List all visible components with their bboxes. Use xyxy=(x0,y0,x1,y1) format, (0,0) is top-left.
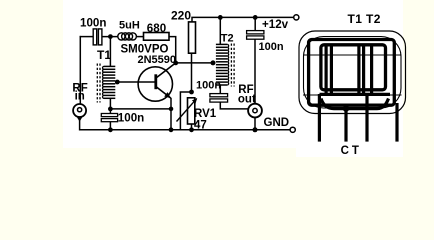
node RV1 ground junction dot xyxy=(189,127,194,132)
svg-text:T1: T1 xyxy=(97,48,111,62)
wire C3 to RF out xyxy=(220,102,248,109)
transistor Q1 2N5590 circle xyxy=(138,67,172,101)
potentiometer RV1 body xyxy=(188,98,195,124)
winding wire pass 1 xyxy=(325,44,328,96)
node C2 ground junction dot xyxy=(108,127,113,132)
transformer figure hole bottom chord xyxy=(303,94,402,96)
node collector junction dot xyxy=(173,61,178,66)
svg-text:5uH: 5uH xyxy=(119,20,140,32)
transistor Q1 base bar xyxy=(154,74,157,89)
node emitter wire junction dot xyxy=(169,107,174,112)
node base tap junction dot xyxy=(115,80,120,85)
wire R2 to RV1 xyxy=(191,53,193,92)
node T1 bottom junction dot xyxy=(108,107,113,112)
node RV1 top junction dot xyxy=(189,90,194,95)
node T2 rail junction dot xyxy=(218,15,223,20)
transformer T2 winding right arcs xyxy=(227,44,228,85)
RF out jack inner ring xyxy=(253,108,257,112)
capacitor C4 100n bottom plate xyxy=(247,36,264,39)
wire decoupling cap to jack xyxy=(254,39,256,130)
node emitter ground junction dot xyxy=(169,127,174,132)
wire jack to ground rail xyxy=(79,117,81,131)
winding wire pass 4 xyxy=(362,44,365,96)
resistor R2 220 body xyxy=(189,22,196,53)
capacitor C3 100n bottom plate xyxy=(210,99,228,102)
potentiometer RV1 arrow head xyxy=(192,98,197,104)
transformer T1 winding bars xyxy=(104,66,115,98)
wire RV1 bottom xyxy=(191,124,193,131)
node +12v cap junction dot xyxy=(253,15,258,20)
transformer T1 bottom wire xyxy=(109,98,111,109)
capacitor C1 100n plate 2 xyxy=(98,29,102,45)
capacitor C4 100n top plate xyxy=(247,31,264,34)
transformer T2 winding bars xyxy=(216,44,227,85)
wire rail to C4 xyxy=(254,17,256,30)
transformer figure white background xyxy=(296,0,403,157)
wire C2 bottom xyxy=(109,122,111,131)
node RF out ground junction dot xyxy=(253,127,258,132)
transistor Q1 collector lead xyxy=(156,63,176,78)
wire collector to T2 xyxy=(176,62,213,64)
inductor L1 5uH loops xyxy=(118,33,137,40)
wire L1 to R1 xyxy=(137,36,144,38)
wire base xyxy=(117,81,154,83)
transformer figure hole top chord xyxy=(303,54,402,56)
schematic white background xyxy=(63,0,403,148)
node T2 tap junction dot xyxy=(211,60,216,65)
svg-text:T2: T2 xyxy=(221,32,234,44)
svg-text:680: 680 xyxy=(147,22,166,35)
potentiometer RV1 wiper arrow xyxy=(177,99,197,122)
transformer T1 feed wire top xyxy=(109,37,111,67)
winding mid loop xyxy=(321,45,386,90)
transformer T2 bottom wire xyxy=(219,85,221,94)
wire input top horizontal xyxy=(80,36,94,38)
+12v rail wire xyxy=(192,17,295,22)
transformer figure outer core outline xyxy=(299,31,406,114)
center tap leg xyxy=(344,109,347,142)
RF in jack bottom wedge xyxy=(76,116,82,121)
+12v terminal circle xyxy=(294,15,299,20)
capacitor C3 100n top plate xyxy=(210,94,228,97)
svg-text:RV1: RV1 xyxy=(194,108,217,120)
winding bottom bar xyxy=(320,93,391,96)
capacitor C1 100n plate 1 xyxy=(93,29,97,45)
svg-text:CT: CT xyxy=(341,145,362,157)
svg-text:+12v: +12v xyxy=(262,18,289,31)
node A junction dot xyxy=(108,34,113,39)
transformer T1 winding left arcs xyxy=(103,66,104,98)
wire emitter vertical xyxy=(170,98,172,131)
wire RV1 top branch left xyxy=(180,92,191,131)
winding tall loop xyxy=(309,40,395,106)
winding leg 1 xyxy=(318,94,321,142)
svg-text:100n: 100n xyxy=(118,112,144,125)
transformer T1 core dashed lines xyxy=(97,64,100,103)
svg-text:in: in xyxy=(75,91,85,103)
transistor Q1 emitter lead xyxy=(156,87,171,99)
GND terminal circle xyxy=(290,127,295,132)
RF out jack outer circle xyxy=(248,104,262,118)
svg-text:100n: 100n xyxy=(196,79,221,91)
resistor R1 680 body xyxy=(144,33,170,41)
transformer figure inner core outline xyxy=(304,37,402,109)
winding wire pass 2 xyxy=(330,44,333,96)
winding wire pass 3 xyxy=(357,44,360,96)
wire T1 bottom to emitter xyxy=(110,108,171,110)
svg-text:220: 220 xyxy=(171,9,191,23)
wire R1 to collector node xyxy=(169,37,176,63)
svg-text:100n: 100n xyxy=(259,41,284,53)
center tap bar xyxy=(321,99,389,109)
RF in jack outer circle xyxy=(73,104,86,117)
winding leg 2 xyxy=(365,94,368,142)
ground rail xyxy=(79,129,292,131)
svg-text:GND: GND xyxy=(264,117,290,129)
svg-text:T1 T2: T1 T2 xyxy=(348,12,381,26)
capacitor C2 100n bottom plate xyxy=(101,119,117,122)
transformer T2 feed wire xyxy=(219,17,221,45)
RF in jack inner ring xyxy=(78,108,82,112)
transformer T2 core dashed lines xyxy=(231,44,234,87)
page background xyxy=(0,0,434,160)
svg-text:100n: 100n xyxy=(80,17,106,30)
wire C2 top xyxy=(109,109,111,114)
wire input left vertical xyxy=(79,36,81,104)
winding leg 3 xyxy=(395,103,398,142)
center tap junction dot xyxy=(343,105,349,111)
winding wire pass 5 xyxy=(370,44,373,96)
capacitor C2 100n top plate xyxy=(101,114,117,117)
transistor Q1 emitter arrow xyxy=(164,92,171,98)
svg-text:2N5590: 2N5590 xyxy=(138,54,177,66)
wire C1 to node A xyxy=(102,36,118,38)
